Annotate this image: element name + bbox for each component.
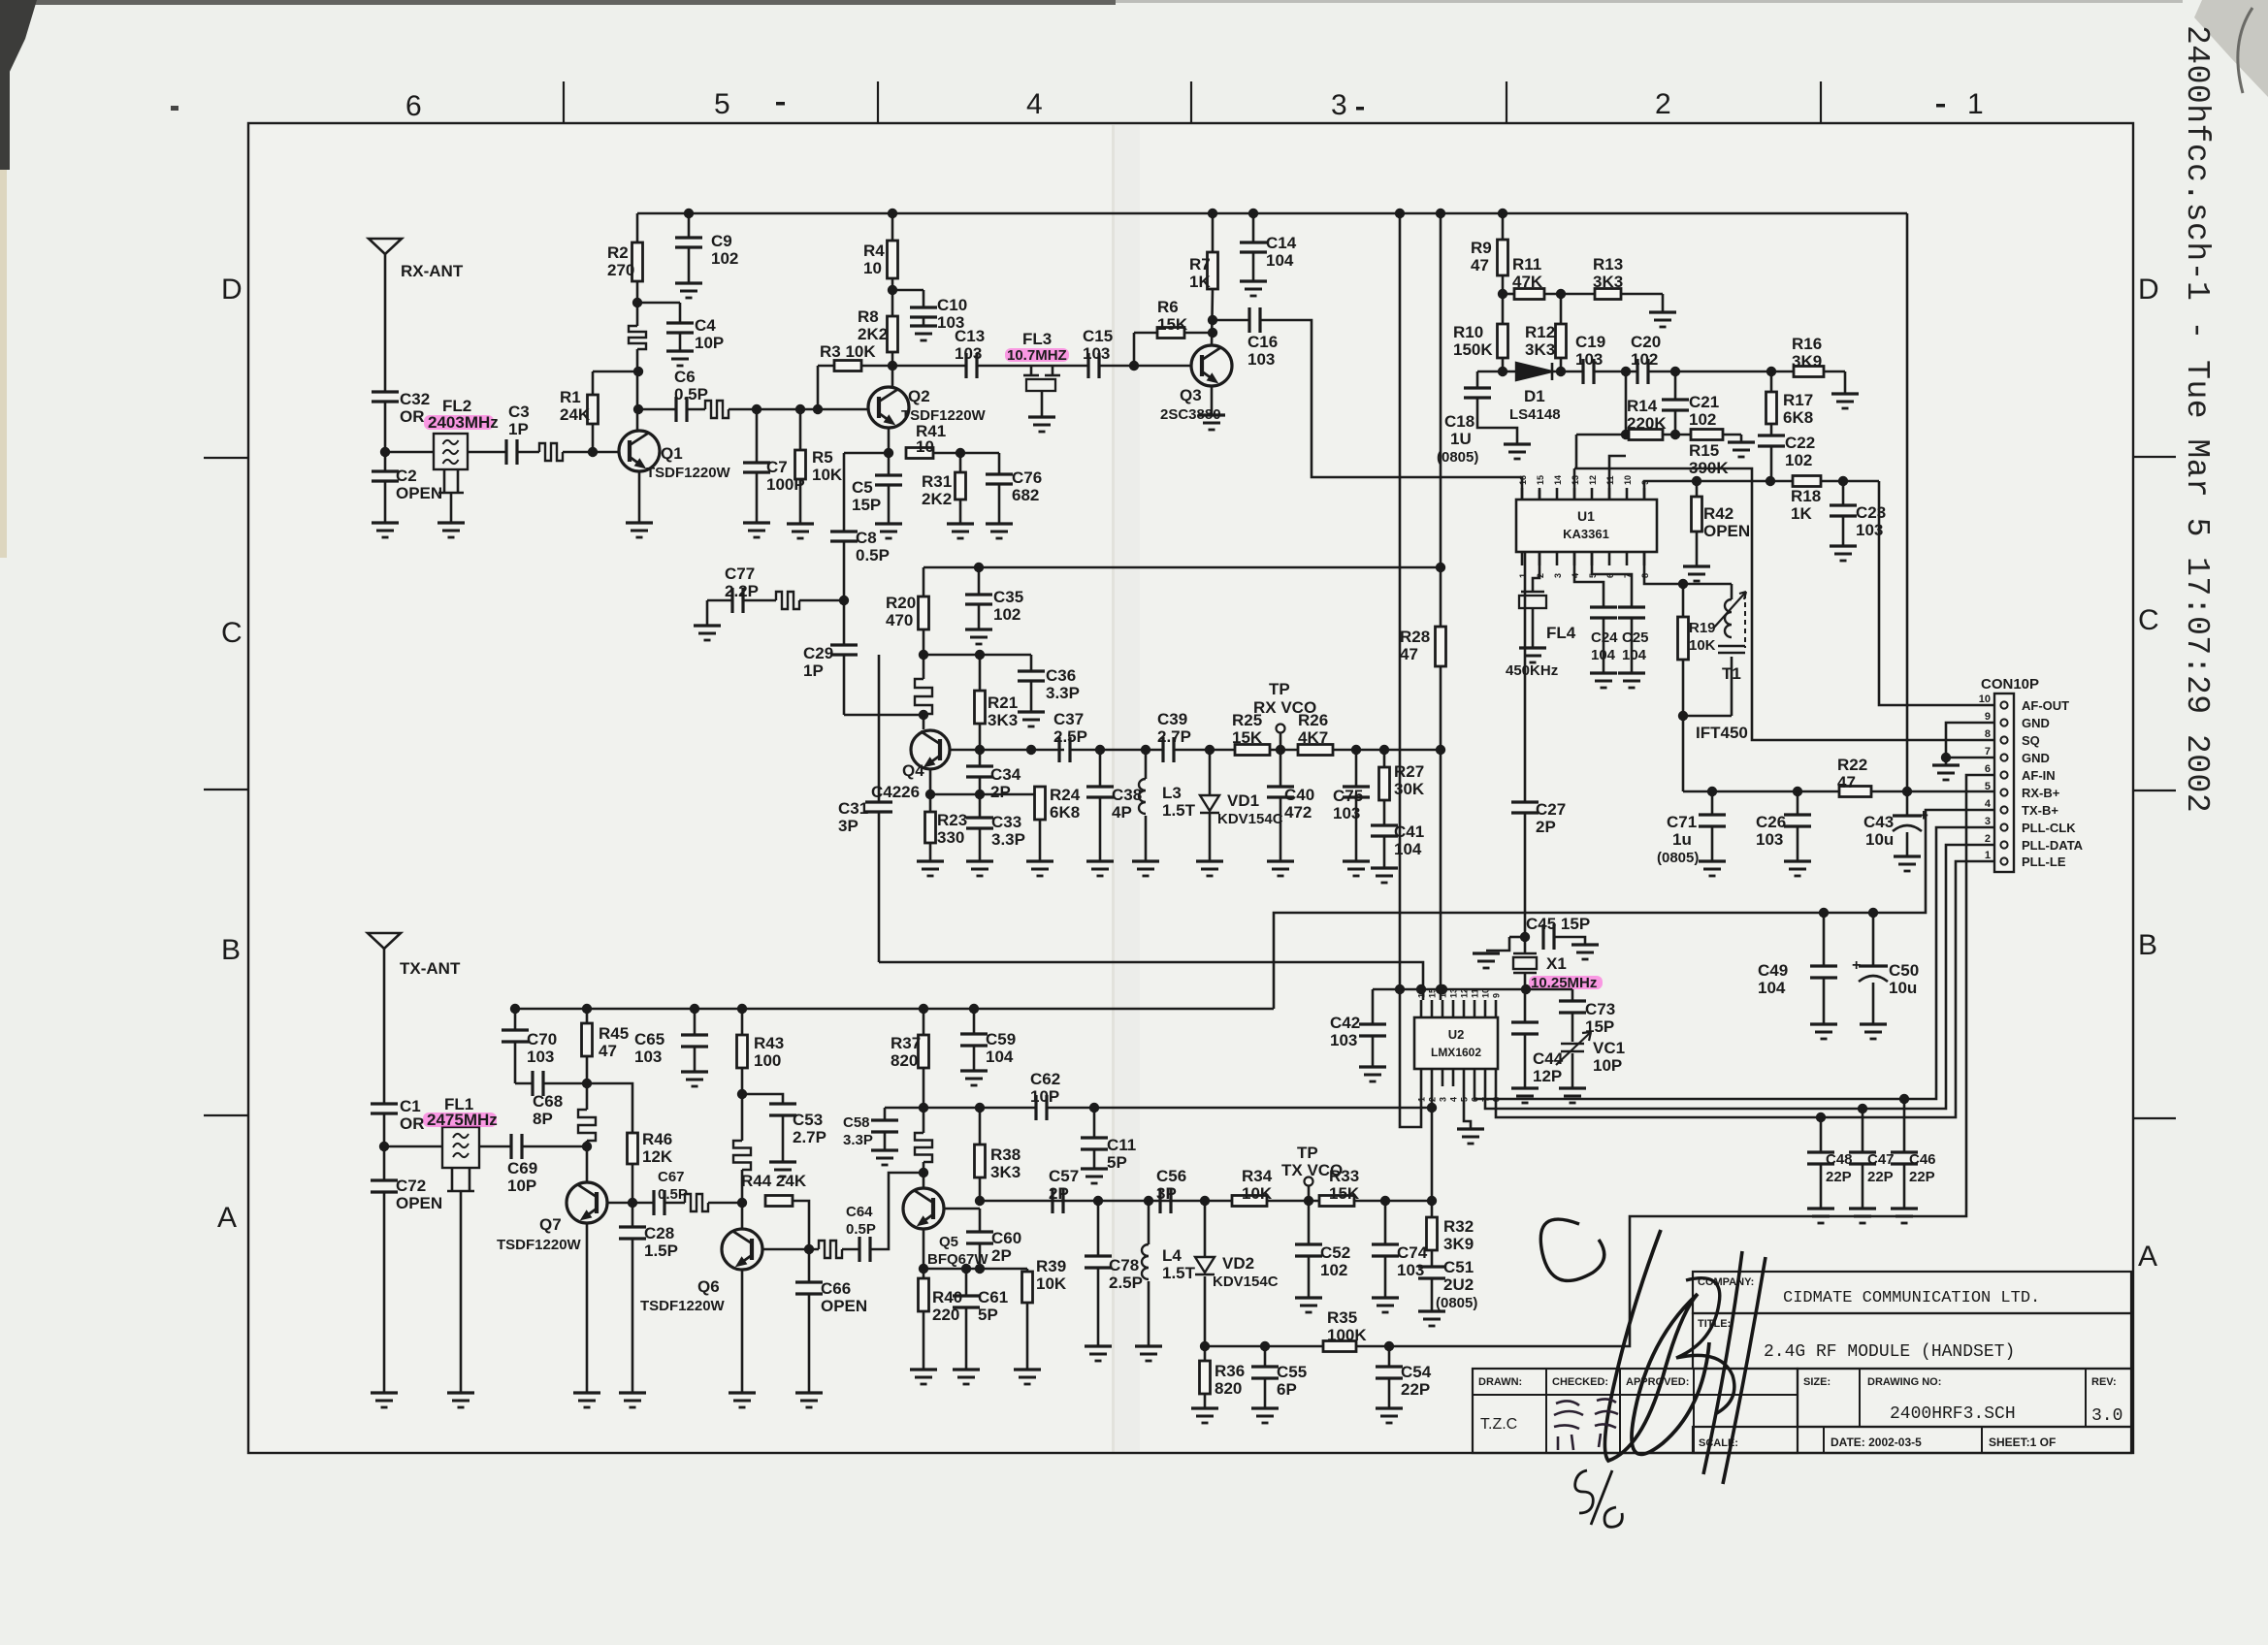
svg-text:R2: R2 bbox=[607, 243, 629, 262]
node R8-R3-Q2 collector bbox=[888, 361, 897, 371]
wire C6 to bead bbox=[688, 408, 705, 411]
node T1 bottom bbox=[1678, 711, 1688, 721]
resistor R17 bbox=[1770, 371, 1773, 392]
U1 bottom pin stubs bbox=[1521, 552, 1524, 565]
svg-text:682: 682 bbox=[1012, 486, 1039, 504]
svg-text:3K3: 3K3 bbox=[990, 1163, 1021, 1181]
title block size row bbox=[1798, 1369, 2131, 1427]
wire C3 to bead bbox=[518, 451, 539, 454]
ground L4 bbox=[1135, 1344, 1162, 1347]
resistor R25 bbox=[1235, 745, 1270, 756]
svg-text:24K: 24K bbox=[560, 405, 591, 424]
svg-text:820: 820 bbox=[1215, 1379, 1242, 1398]
svg-text:15K: 15K bbox=[1232, 728, 1263, 747]
svg-text:3: 3 bbox=[1985, 816, 1991, 827]
wire Q1 collector to C6 bbox=[638, 408, 676, 411]
capacitor C66 OPEN bbox=[808, 1249, 811, 1282]
wire Q1 emitter bbox=[638, 471, 641, 523]
ground R36 bbox=[1191, 1406, 1218, 1409]
svg-text:C25: C25 bbox=[1622, 629, 1649, 646]
wire C77 bead to C8 line bbox=[744, 599, 776, 602]
svg-text:103: 103 bbox=[1330, 1031, 1357, 1049]
svg-text:OPEN: OPEN bbox=[396, 484, 442, 502]
handwriting 5/3 bbox=[1575, 1470, 1623, 1527]
svg-text:Q7: Q7 bbox=[539, 1215, 562, 1234]
svg-text:10K: 10K bbox=[1036, 1274, 1067, 1293]
capacitor C38 bbox=[1099, 750, 1102, 787]
svg-text:103: 103 bbox=[1575, 350, 1603, 369]
ground Q1 emitter bbox=[626, 521, 653, 524]
wire TX VCC rail bbox=[515, 1008, 1274, 1011]
svg-text:OPEN: OPEN bbox=[1703, 522, 1750, 540]
node Q7 collector bbox=[582, 1142, 592, 1151]
resistor R21 bbox=[975, 650, 985, 660]
svg-text:104: 104 bbox=[1622, 647, 1647, 663]
wire C37 to C39 bbox=[1071, 749, 1163, 752]
svg-text:R6: R6 bbox=[1157, 298, 1179, 316]
svg-text:TX-ANT: TX-ANT bbox=[400, 959, 461, 978]
node R18-C23 bbox=[1838, 476, 1848, 486]
svg-text:12: 12 bbox=[1588, 475, 1598, 485]
svg-text:A: A bbox=[217, 1202, 237, 1234]
svg-text:R12: R12 bbox=[1525, 323, 1555, 341]
svg-text:TX-B+: TX-B+ bbox=[2022, 803, 2058, 818]
svg-text:SQ: SQ bbox=[2022, 733, 2040, 748]
svg-text:2.2P: 2.2P bbox=[725, 582, 759, 600]
svg-text:Q5: Q5 bbox=[939, 1234, 958, 1250]
svg-text:C2: C2 bbox=[396, 467, 417, 485]
svg-text:R7: R7 bbox=[1189, 255, 1211, 274]
svg-text:IFT450: IFT450 bbox=[1696, 724, 1748, 742]
wire U1 pin9 audio line bbox=[1644, 481, 1879, 500]
svg-text:8: 8 bbox=[1492, 1097, 1502, 1102]
svg-text:C67: C67 bbox=[658, 1169, 685, 1185]
svg-text:C16: C16 bbox=[1247, 333, 1278, 351]
resistor R46 bbox=[587, 1083, 632, 1133]
svg-text:FL4: FL4 bbox=[1546, 624, 1576, 642]
resistor R1 bbox=[592, 424, 595, 452]
svg-text:LS4148: LS4148 bbox=[1509, 406, 1561, 423]
svg-text:R32: R32 bbox=[1443, 1217, 1474, 1236]
node R4-R8-C10 bbox=[888, 285, 897, 295]
node Q4 base line bbox=[919, 710, 928, 720]
capacitor C46 bbox=[1903, 1099, 1906, 1152]
svg-text:C9: C9 bbox=[711, 232, 732, 250]
svg-text:6: 6 bbox=[1471, 1097, 1480, 1102]
node TP RX VCO bbox=[1270, 749, 1298, 752]
svg-text:C6: C6 bbox=[674, 368, 696, 386]
capacitor C14 bbox=[1248, 209, 1258, 218]
capacitor C4 bbox=[637, 302, 680, 305]
wire PLL-LE route bbox=[1496, 861, 1994, 1117]
svg-text:AF-OUT: AF-OUT bbox=[2022, 698, 2069, 713]
svg-text:3.3P: 3.3P bbox=[991, 830, 1025, 849]
svg-text:C46: C46 bbox=[1909, 1151, 1936, 1168]
svg-text:SHEET:1 OF: SHEET:1 OF bbox=[1989, 1435, 2056, 1449]
node R9-R11 bbox=[1498, 289, 1507, 299]
capacitor C35 bbox=[974, 563, 984, 572]
fold crease bbox=[1112, 125, 1115, 1453]
svg-text:KA3361: KA3361 bbox=[1563, 527, 1609, 541]
svg-text:10: 10 bbox=[1979, 693, 1991, 705]
capacitor C15 bbox=[1086, 353, 1089, 378]
node C55 tap bbox=[1260, 1341, 1270, 1351]
node C62 line to U2 bbox=[1427, 1103, 1437, 1113]
capacitor C16 bbox=[1247, 307, 1250, 333]
wire X1 row to ground bbox=[1486, 937, 1509, 951]
svg-text:22P: 22P bbox=[1867, 1169, 1894, 1185]
resistor R23 bbox=[929, 794, 932, 812]
node VD2 bottom bbox=[1200, 1341, 1210, 1351]
ground C74 bbox=[1372, 1296, 1399, 1299]
ground FL4 bbox=[1519, 646, 1546, 649]
svg-text:L4: L4 bbox=[1162, 1246, 1182, 1265]
capacitor C41 bbox=[1383, 800, 1386, 825]
svg-text:C39: C39 bbox=[1157, 710, 1187, 728]
svg-text:2P: 2P bbox=[1049, 1184, 1069, 1203]
svg-text:103: 103 bbox=[634, 1048, 662, 1066]
node Q1 base bbox=[588, 447, 598, 457]
svg-text:TP: TP bbox=[1269, 680, 1290, 698]
wire U1 pin8 to T1 bbox=[1644, 552, 1732, 584]
node C54 tap bbox=[1384, 1341, 1394, 1351]
ground C66 bbox=[795, 1391, 823, 1394]
svg-text:150K: 150K bbox=[1453, 340, 1493, 359]
capacitor C49 bbox=[1823, 913, 1826, 966]
wire antenna to FL2 bbox=[385, 451, 434, 454]
wire R7 node to C16 bbox=[1213, 319, 1249, 322]
svg-text:12K: 12K bbox=[642, 1147, 673, 1166]
diode D1 LS4148 bbox=[1516, 363, 1552, 380]
ground C61 bbox=[953, 1368, 980, 1371]
svg-text:C33: C33 bbox=[991, 813, 1021, 831]
node C53 tap bbox=[737, 1089, 747, 1099]
resistor R20 bbox=[923, 567, 925, 597]
svg-text:1P: 1P bbox=[508, 420, 529, 438]
svg-text:C38: C38 bbox=[1112, 786, 1142, 804]
svg-text:4: 4 bbox=[1449, 1097, 1459, 1102]
wire VCC to U2 bbox=[1395, 209, 1405, 218]
svg-text:C58: C58 bbox=[843, 1114, 870, 1131]
svg-text:1: 1 bbox=[1985, 850, 1991, 861]
svg-text:C51: C51 bbox=[1443, 1258, 1474, 1276]
resistor R41 bbox=[906, 448, 933, 459]
svg-text:B: B bbox=[221, 934, 241, 966]
capacitor C68 bbox=[531, 1071, 534, 1096]
node R45-C68-R46 bbox=[582, 1079, 592, 1088]
ground FL2 bbox=[437, 521, 465, 524]
resistor R28 bbox=[1436, 627, 1446, 666]
node R27 tap bbox=[1379, 745, 1389, 755]
ground C53 bbox=[769, 1160, 796, 1163]
wire C31 branch bbox=[878, 655, 881, 802]
svg-text:KDV154C: KDV154C bbox=[1213, 1274, 1279, 1290]
capacitor C27 bbox=[1524, 552, 1527, 802]
svg-text:220K: 220K bbox=[1627, 414, 1667, 433]
capacitor C34 bbox=[979, 750, 982, 766]
svg-text:APPROVED:: APPROVED: bbox=[1626, 1376, 1689, 1388]
capacitor C10 bbox=[892, 289, 923, 292]
svg-text:4: 4 bbox=[1985, 798, 1992, 810]
capacitor C2 bbox=[384, 452, 387, 471]
ground R5 bbox=[787, 522, 814, 525]
ferrite bead Q5 collector bbox=[915, 1133, 932, 1162]
resistor R32 bbox=[1431, 1201, 1434, 1217]
svg-text:C35: C35 bbox=[993, 588, 1023, 606]
svg-text:9: 9 bbox=[1640, 480, 1650, 485]
capacitor C37 bbox=[1057, 737, 1060, 762]
transformer T1 IFT450 bbox=[1731, 584, 1733, 599]
svg-text:R38: R38 bbox=[990, 1145, 1021, 1164]
ground C28 bbox=[619, 1391, 646, 1394]
U1 top pin stubs bbox=[1521, 488, 1524, 500]
varactor VD2 KDV154C bbox=[1204, 1201, 1207, 1257]
svg-text:1K: 1K bbox=[1791, 504, 1812, 523]
svg-text:R19: R19 bbox=[1689, 620, 1716, 636]
svg-text:0.5P: 0.5P bbox=[658, 1186, 688, 1203]
svg-text:C1: C1 bbox=[400, 1097, 421, 1115]
svg-text:820: 820 bbox=[891, 1051, 918, 1070]
svg-text:2403MHz: 2403MHz bbox=[428, 413, 499, 432]
svg-text:C77: C77 bbox=[725, 564, 755, 583]
svg-text:10K: 10K bbox=[812, 466, 843, 484]
wire VCC rail RX bbox=[637, 212, 1907, 215]
ground C59 bbox=[960, 1069, 988, 1072]
svg-text:C3: C3 bbox=[508, 403, 530, 421]
svg-text:C54: C54 bbox=[1401, 1363, 1432, 1381]
node R42 tap bbox=[1692, 476, 1701, 486]
node C21-R14-R15 bbox=[1670, 430, 1680, 439]
ground C52 bbox=[1295, 1296, 1322, 1299]
ferrite bead Q2 base bbox=[705, 401, 729, 418]
capacitor C50 10u polarized bbox=[1872, 913, 1875, 966]
svg-text:C74: C74 bbox=[1397, 1243, 1428, 1262]
svg-text:2400HRF3.SCH: 2400HRF3.SCH bbox=[1890, 1404, 2016, 1424]
svg-text:R26: R26 bbox=[1298, 711, 1328, 729]
transistor Q7 TSDF1220W bbox=[567, 1182, 607, 1223]
capacitor C54 bbox=[1388, 1346, 1391, 1367]
node R3 tap bbox=[813, 404, 823, 414]
transistor Q5 BFQ67W bbox=[903, 1188, 944, 1229]
svg-text:2P: 2P bbox=[1536, 818, 1556, 836]
capacitor C53 bbox=[742, 1094, 783, 1104]
svg-text:2P: 2P bbox=[991, 1246, 1012, 1265]
resistor R3 bbox=[817, 366, 820, 409]
svg-text:3K9: 3K9 bbox=[1792, 352, 1822, 371]
resistor R40 bbox=[919, 1278, 929, 1311]
svg-text:R37: R37 bbox=[891, 1034, 921, 1052]
svg-text:R45: R45 bbox=[599, 1024, 629, 1043]
svg-text:T1: T1 bbox=[1722, 664, 1741, 683]
wire U2 top row bbox=[1373, 988, 1572, 991]
svg-text:R28: R28 bbox=[1400, 628, 1430, 646]
ground C5 bbox=[875, 522, 902, 525]
svg-text:10P: 10P bbox=[1593, 1056, 1622, 1075]
node R21-Q4 base bbox=[975, 745, 985, 755]
svg-text:C50: C50 bbox=[1889, 961, 1919, 980]
capacitor C52 bbox=[1308, 1201, 1311, 1244]
title block drawn table bbox=[1473, 1369, 1798, 1453]
node Q4 emitter bbox=[925, 790, 935, 799]
svg-text:R43: R43 bbox=[754, 1034, 784, 1052]
capacitor C73 bbox=[1571, 989, 1574, 1001]
ground R13 bbox=[1649, 310, 1676, 313]
wire R21 branch bbox=[923, 654, 1031, 657]
svg-text:R36: R36 bbox=[1215, 1362, 1245, 1380]
svg-text:C45 15P: C45 15P bbox=[1526, 915, 1590, 933]
resistor R31 bbox=[959, 453, 962, 472]
transistor Q6 TSDF1220W bbox=[722, 1229, 762, 1270]
resistor R2 bbox=[636, 213, 639, 242]
svg-text:GND: GND bbox=[2022, 716, 2050, 730]
ground C47 bbox=[1849, 1207, 1876, 1210]
svg-text:C55: C55 bbox=[1277, 1363, 1307, 1381]
svg-text:3P: 3P bbox=[1156, 1184, 1177, 1203]
svg-text:PLL-LE: PLL-LE bbox=[2022, 855, 2066, 869]
svg-text:C70: C70 bbox=[527, 1030, 557, 1048]
svg-text:D1: D1 bbox=[1524, 387, 1545, 405]
ferrite bead Q5 output bbox=[819, 1241, 842, 1258]
svg-text:Q1: Q1 bbox=[661, 444, 683, 463]
title block title box bbox=[1693, 1313, 2131, 1369]
svg-text:Q2: Q2 bbox=[908, 387, 930, 405]
ground VC1 bbox=[1559, 1086, 1586, 1089]
node C36 tap on VCO line bbox=[1026, 745, 1036, 755]
wire C13 to FL3 bbox=[978, 365, 1088, 368]
ground C55 bbox=[1251, 1406, 1279, 1409]
svg-text:C60: C60 bbox=[991, 1229, 1021, 1247]
node C62 line tap bbox=[919, 1103, 928, 1113]
frame column ticks bbox=[563, 81, 565, 123]
capacitor C20 bbox=[1636, 359, 1638, 384]
node R17 top bbox=[1766, 367, 1776, 376]
capacitor C55 bbox=[1264, 1346, 1267, 1367]
filter FL2 2403MHz bbox=[434, 434, 468, 469]
resistor R33 bbox=[1319, 1196, 1354, 1207]
svg-text:C29: C29 bbox=[803, 644, 833, 662]
svg-text:R35: R35 bbox=[1327, 1308, 1357, 1327]
svg-text:10: 10 bbox=[916, 437, 934, 456]
node C22-R18 bbox=[1766, 476, 1775, 486]
svg-text:2475MHz: 2475MHz bbox=[427, 1111, 498, 1129]
antenna RX-ANT bbox=[369, 239, 402, 254]
ground C7 bbox=[743, 521, 770, 524]
svg-text:5P: 5P bbox=[978, 1306, 998, 1324]
svg-text:22P: 22P bbox=[1826, 1169, 1852, 1185]
node C7 tap bbox=[752, 404, 761, 414]
svg-text:C69: C69 bbox=[507, 1159, 537, 1177]
svg-text:10P: 10P bbox=[507, 1177, 536, 1195]
svg-text:C15: C15 bbox=[1083, 327, 1113, 345]
svg-text:22P: 22P bbox=[1909, 1169, 1935, 1185]
svg-text:DRAWN:: DRAWN: bbox=[1478, 1376, 1522, 1388]
node R32 top bbox=[1427, 1196, 1437, 1206]
svg-text:TSDF1220W: TSDF1220W bbox=[646, 465, 731, 481]
svg-text:R5: R5 bbox=[812, 448, 833, 467]
svg-text:102: 102 bbox=[1631, 350, 1658, 369]
svg-text:T.Z.C: T.Z.C bbox=[1480, 1416, 1517, 1433]
frame border bbox=[248, 123, 2133, 1453]
ground C42 bbox=[1359, 1065, 1386, 1068]
svg-text:104: 104 bbox=[1758, 979, 1786, 997]
svg-text:15K: 15K bbox=[1157, 315, 1188, 334]
ground antenna bbox=[372, 521, 399, 524]
ground C75 bbox=[1343, 859, 1370, 862]
svg-text:47: 47 bbox=[1471, 256, 1489, 274]
wire U1 pin5 to C25 bbox=[1592, 552, 1632, 607]
resistor R5 bbox=[799, 409, 802, 450]
svg-text:11: 11 bbox=[1471, 988, 1480, 998]
ground C9 bbox=[675, 281, 702, 284]
svg-text:104: 104 bbox=[1266, 251, 1294, 270]
wire R26 to R28 line bbox=[1333, 749, 1441, 752]
svg-text:10K: 10K bbox=[1689, 637, 1716, 654]
svg-text:2.7P: 2.7P bbox=[793, 1128, 826, 1146]
svg-text:C66: C66 bbox=[821, 1279, 851, 1298]
svg-text:TP: TP bbox=[1297, 1144, 1318, 1162]
resistor R37 bbox=[919, 1004, 928, 1014]
wire D1 row bbox=[1477, 371, 1516, 373]
resistor R15 bbox=[1691, 430, 1723, 440]
capacitor C70 bbox=[510, 1004, 520, 1014]
node C26 tap bbox=[1793, 787, 1802, 796]
wire R14 row bbox=[1576, 434, 1629, 436]
svg-text:KDV154C: KDV154C bbox=[1217, 811, 1283, 827]
svg-text:C22: C22 bbox=[1785, 434, 1815, 452]
svg-text:R17: R17 bbox=[1783, 391, 1813, 409]
svg-text:C53: C53 bbox=[793, 1111, 823, 1129]
wire C62 line bbox=[885, 1107, 1036, 1110]
svg-text:R15: R15 bbox=[1689, 441, 1719, 460]
wire C64 to Q5 collector bbox=[871, 1173, 923, 1249]
svg-text:2.5P: 2.5P bbox=[1109, 1274, 1143, 1292]
svg-text:3K3: 3K3 bbox=[1525, 340, 1555, 359]
ground C25 bbox=[1618, 671, 1645, 674]
ground VD1 bbox=[1196, 859, 1223, 862]
svg-text:102: 102 bbox=[711, 249, 738, 268]
ground C77 bbox=[706, 600, 709, 626]
svg-text:C73: C73 bbox=[1585, 1000, 1615, 1018]
svg-text:0.5P: 0.5P bbox=[674, 385, 708, 403]
wire AF-IN route bbox=[1389, 775, 1994, 1346]
capacitor C22 bbox=[1758, 434, 1785, 436]
wire bead to Q4 bbox=[923, 714, 925, 729]
svg-text:3P: 3P bbox=[838, 817, 859, 835]
wire C16 to U1 pin16 bbox=[1261, 320, 1522, 500]
node D1 anode bbox=[1498, 367, 1507, 376]
svg-text:3K3: 3K3 bbox=[988, 711, 1018, 729]
ground C50 bbox=[1860, 1022, 1887, 1025]
svg-text:47K: 47K bbox=[1512, 273, 1543, 291]
wire bead to Q1 collector bbox=[636, 349, 639, 431]
resistor R14 bbox=[1629, 430, 1663, 440]
node C71 tap bbox=[1707, 787, 1717, 796]
svg-text:2.7P: 2.7P bbox=[1157, 727, 1191, 746]
svg-text:10: 10 bbox=[863, 259, 882, 277]
U2 bottom pin stubs bbox=[1420, 1069, 1423, 1086]
capacitor C47 bbox=[1862, 1109, 1864, 1152]
capacitor C23 bbox=[1842, 481, 1845, 505]
svg-text:100K: 100K bbox=[1327, 1326, 1367, 1344]
ferrite bead RX input bbox=[539, 443, 563, 461]
capacitor C36 bbox=[1030, 655, 1033, 671]
svg-text:OPEN: OPEN bbox=[396, 1194, 442, 1212]
ground C44 bbox=[1511, 1086, 1539, 1089]
svg-text:R24: R24 bbox=[1050, 786, 1081, 804]
wire VCO feedback to U2 bbox=[879, 962, 1423, 1000]
wire PLL-DATA route bbox=[1485, 845, 1994, 1109]
svg-text:15: 15 bbox=[1428, 988, 1438, 998]
